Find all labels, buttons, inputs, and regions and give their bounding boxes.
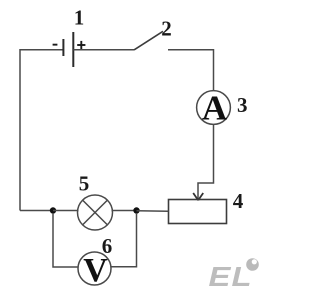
minus sign xyxy=(53,44,58,46)
svg-text:6: 6 xyxy=(102,234,113,258)
svg-text:EL: EL xyxy=(209,261,253,292)
wire voltmeter right side up to right junction xyxy=(111,213,137,267)
wire top-left from corner to battery negative plate xyxy=(20,50,63,211)
svg-text:3: 3 xyxy=(237,93,248,117)
wire ammeter bottom down, jog left to rheostat wiper xyxy=(198,124,214,199)
rheostat R (label 4) body xyxy=(169,200,227,224)
long positive plate xyxy=(72,32,74,67)
switch S (label 2) lever xyxy=(134,31,163,50)
wire left junction to lamp xyxy=(53,210,79,212)
svg-text:A: A xyxy=(202,89,228,128)
wire battery positive to switch left contact xyxy=(73,49,134,51)
wire lamp to right junction xyxy=(112,210,137,212)
plus sign xyxy=(77,44,85,46)
lamp L (label 5) xyxy=(78,195,113,230)
node right junction xyxy=(133,207,139,213)
svg-text:5: 5 xyxy=(79,172,90,196)
node left junction xyxy=(50,207,56,213)
wire bottom-left corner to left junction xyxy=(20,210,53,212)
wire right junction to rheostat left terminal xyxy=(137,210,169,212)
voltmeter V (label 6) xyxy=(78,252,111,289)
wire switch right contact to top-right corner and down to ammeter xyxy=(168,50,214,91)
short negative plate xyxy=(62,39,64,56)
wire left junction down and right to voltmeter xyxy=(53,213,78,267)
svg-text:1: 1 xyxy=(74,6,85,30)
svg-text:2: 2 xyxy=(161,16,172,40)
EL watermark logo xyxy=(209,258,259,292)
svg-text:4: 4 xyxy=(233,189,244,213)
battery B (label 1) xyxy=(53,32,86,67)
ammeter A (label 3) xyxy=(197,89,231,128)
wiper arrow head xyxy=(193,193,198,200)
